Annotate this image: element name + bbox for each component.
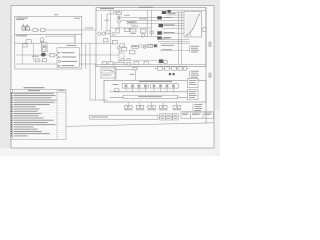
- heater vessel 2: [41, 47, 47, 52]
- parts table row 8: [11, 109, 12, 110]
- parts table header text: [28, 89, 40, 92]
- burner label 4: [164, 16, 173, 19]
- pump dark mark 1: [169, 73, 171, 75]
- heater vessel 1 circle: [43, 43, 46, 46]
- exchanger circle 2: [119, 50, 122, 53]
- blowdown wire 1: [158, 38, 190, 40]
- page sheet: [11, 6, 214, 149]
- comp row circle 2: [129, 29, 132, 32]
- legend row 2 marker: [58, 56, 60, 58]
- lower header label: [138, 95, 162, 98]
- mini cell text: [161, 115, 178, 119]
- parts table row rules: [10, 94, 66, 137]
- parts table row 2: [11, 95, 12, 96]
- M2 right cell lower: [188, 90, 199, 100]
- riser wire g: [181, 11, 183, 64]
- legend row 3 marker: [58, 61, 60, 63]
- heater vessel 1: [42, 42, 48, 46]
- M2 right cell upper: [188, 79, 199, 88]
- pump box 3: [172, 67, 177, 70]
- box A corner note: [74, 17, 80, 20]
- notes text 1: [103, 69, 112, 72]
- consumer group 4 label: [159, 108, 167, 111]
- valve V7 stem: [160, 88, 162, 92]
- valve bowtie: [117, 17, 120, 19]
- bottom row box 2: [108, 62, 113, 65]
- upper bus wire: [110, 27, 152, 29]
- feed box: [106, 31, 110, 34]
- M1 title left: [100, 8, 114, 9]
- deaerator box D1: [117, 12, 122, 15]
- box B pump circle: [40, 38, 44, 42]
- long bottom wire of module: [16, 63, 96, 65]
- pump circle: [183, 67, 187, 71]
- box B small box: [26, 40, 32, 43]
- upper mid box: [104, 39, 109, 42]
- feed circle 2: [102, 32, 105, 35]
- burner block 1: [162, 11, 167, 14]
- consumer group 3 label: [148, 108, 156, 111]
- mini cell grid: [160, 114, 173, 120]
- blowdown label 1: [160, 37, 170, 40]
- M1 small label 4: [131, 25, 138, 28]
- riser wire e: [151, 10, 153, 37]
- consumer group 4 box b: [164, 105, 167, 108]
- deaerator stem wire: [118, 10, 120, 28]
- riser elbow to manifold: [90, 99, 108, 101]
- pump box 4: [178, 67, 183, 70]
- consumer group 3 box a: [148, 105, 151, 108]
- parts table row 11: [11, 115, 12, 116]
- burner block 2: [167, 10, 170, 13]
- bottom row box 5: [144, 62, 149, 65]
- heater box H1: [33, 29, 37, 32]
- valve V8: [166, 85, 169, 87]
- valve V6: [153, 85, 156, 87]
- M1 title center: [139, 7, 153, 8]
- box B pump base: [41, 42, 43, 43]
- blowdown wire 4: [160, 50, 190, 52]
- valve V8 stem: [166, 88, 168, 92]
- parts table row 9: [11, 111, 12, 112]
- consumer group 2 stem: [139, 102, 141, 105]
- M2 right cell upper text: [189, 80, 197, 85]
- line tag stack 3: [195, 104, 203, 111]
- M1 left riser wire: [109, 10, 111, 64]
- blowdown wire 2: [158, 40, 190, 42]
- box B title text: [16, 34, 27, 37]
- manifold box M2: [104, 80, 206, 102]
- valve V6 stem: [153, 88, 155, 92]
- line tag brace 2: [188, 71, 191, 80]
- mid box 1: [112, 40, 117, 44]
- valve V5 stem: [145, 88, 147, 92]
- pump dark mark 2: [173, 73, 175, 75]
- riser wire b: [89, 43, 91, 100]
- consumer group 5 box b: [177, 105, 180, 108]
- legend row 4 text: [62, 65, 75, 66]
- valve V2: [125, 85, 128, 87]
- valve V7: [159, 85, 162, 87]
- steam header sub-box left: [122, 84, 148, 88]
- scan background margin: [0, 0, 220, 156]
- economizer box with curve: [184, 12, 202, 38]
- M2 right cell lower text: [189, 91, 197, 98]
- mid tick box 2: [127, 59, 130, 61]
- comp row box 3 label: [130, 32, 136, 35]
- flow arrow: [56, 54, 58, 56]
- mid labeled box: [132, 45, 139, 48]
- burner block 4: [159, 24, 164, 27]
- parts table row 4: [11, 100, 12, 101]
- mid bus wire: [118, 59, 158, 61]
- drain box 1: [35, 59, 39, 62]
- burner label 1: [164, 23, 175, 26]
- drop wire to manifold: [116, 70, 136, 81]
- burner block 3: [157, 16, 162, 19]
- comp row box 3: [130, 29, 136, 32]
- consumer group 4 box a: [159, 105, 162, 108]
- burner top wire 2: [166, 14, 184, 16]
- note strip box: [90, 115, 159, 119]
- feed circle 1: [98, 32, 101, 35]
- manifold bus wire: [110, 91, 188, 93]
- comp row box 1: [116, 29, 119, 33]
- comp row circle 1: [112, 32, 115, 35]
- parts table column dividers: [10, 89, 66, 139]
- pumps row wire: [155, 68, 188, 70]
- main unit box M1: [96, 8, 206, 67]
- module outer box bottom section: [15, 34, 82, 69]
- burner label 5: [164, 36, 172, 39]
- M2 left label: [113, 83, 119, 86]
- parts table row 12: [11, 117, 12, 118]
- lower header wire: [110, 96, 188, 98]
- M1 small label 1: [113, 11, 120, 14]
- drop wire 2: [114, 66, 116, 80]
- legend row 2 text: [62, 57, 77, 58]
- P2 label: [32, 55, 39, 58]
- steam wire 1: [121, 16, 196, 18]
- drain box 2: [43, 59, 47, 62]
- blowdown wire 3: [160, 42, 190, 44]
- inline box on wire: [127, 21, 136, 24]
- economizer curve: [186, 14, 201, 36]
- note strip text: [91, 116, 108, 119]
- consumer group 3 box b: [152, 105, 155, 108]
- burner wire 0: [163, 25, 196, 27]
- M2 title: [139, 81, 172, 82]
- title row cells: [181, 112, 214, 118]
- drop wire 3 label: [130, 73, 135, 76]
- furnace F2: [26, 25, 30, 31]
- consumer group 5 label: [173, 108, 181, 111]
- gauge circle: [117, 20, 120, 23]
- heater vessel 2 circle: [42, 48, 46, 52]
- manifold inlet box: [115, 89, 120, 92]
- consumer group 2 label: [136, 108, 144, 111]
- burner label 2: [164, 31, 175, 34]
- consumer group 1 box a: [125, 105, 128, 108]
- mid box 3: [148, 44, 153, 47]
- heater box H2: [41, 29, 46, 32]
- comp row box 2: [125, 28, 130, 31]
- burner block 5: [157, 31, 162, 34]
- continuation flag box: [203, 28, 206, 32]
- box A title text: [16, 18, 28, 20]
- parts table row 5: [11, 102, 12, 103]
- valve V2 stem: [125, 88, 127, 92]
- burner top wire 1: [171, 12, 184, 14]
- parts table row 10: [11, 113, 12, 114]
- valve V4 stem: [138, 88, 140, 92]
- mini cell right pair: [173, 114, 179, 120]
- valve V9 stem: [173, 88, 175, 92]
- steam wire 2: [121, 20, 196, 22]
- title row text: [182, 113, 212, 115]
- bottom row box 3: [127, 62, 131, 65]
- consumer group 5 box a: [173, 105, 176, 108]
- zone label right margin 1: [209, 42, 212, 48]
- line tag stack 1: [191, 46, 199, 53]
- mid labeled box text: [132, 45, 137, 48]
- consumer group 2 box b: [141, 105, 144, 108]
- parts table row 13: [11, 120, 12, 121]
- valve V3 stem: [132, 88, 134, 92]
- bottom row wide box: [115, 63, 125, 65]
- bottom row box 6: [164, 60, 168, 63]
- riser wire a: [85, 44, 87, 69]
- drain wire: [35, 60, 47, 62]
- stray note above box A: [54, 13, 59, 16]
- inline box on drop wire: [133, 67, 137, 70]
- parts table row 19: [11, 133, 12, 134]
- riser wire c: [95, 64, 97, 100]
- M1 inner bottom bus: [96, 63, 206, 65]
- mid wire 2: [138, 46, 158, 48]
- legend row 4 marker: [58, 65, 60, 67]
- valve V5: [144, 85, 147, 87]
- parts table row 1: [11, 93, 12, 94]
- burner wire 1: [163, 27, 196, 29]
- burner block 6: [157, 37, 162, 40]
- line tag stack 2: [191, 71, 199, 80]
- parts table row 18: [11, 131, 12, 132]
- notes box divider: [101, 72, 116, 74]
- mid wire 1: [138, 44, 158, 46]
- wire from furnaces to main unit: [29, 29, 96, 31]
- M1 title band rule: [96, 9, 206, 11]
- lower bus wire: [110, 36, 158, 38]
- consumer group 5 stem: [176, 102, 178, 105]
- consumer group 1 box b: [129, 105, 132, 108]
- exchanger box 2: [122, 48, 127, 51]
- consumer group 2 box a: [136, 105, 139, 108]
- mid vertical wire 1: [118, 52, 120, 64]
- economizer curve shading: [186, 14, 201, 36]
- bottom row box 4: [134, 62, 139, 65]
- inline box label: [128, 21, 135, 24]
- pump P2 filled: [41, 53, 46, 57]
- lower header box: [123, 95, 178, 98]
- frame bottom rule: [66, 123, 214, 127]
- wire label: [85, 27, 93, 30]
- mid vertical wire 2: [123, 53, 125, 65]
- blowdown label 3: [162, 48, 172, 51]
- line tag brace 3: [192, 104, 195, 111]
- furnace F1: [22, 25, 29, 31]
- parts table title: [24, 87, 45, 88]
- consumer group 3 stem: [151, 102, 153, 105]
- exchanger box 1: [120, 44, 125, 47]
- wire drop at module right: [75, 36, 118, 43]
- valve V4: [138, 85, 141, 87]
- feed wire horizontal: [107, 13, 117, 15]
- economizer inner wall: [187, 14, 189, 37]
- parts table outline: [10, 89, 66, 139]
- mid tick box 1: [121, 59, 124, 61]
- consumer group 1 label: [124, 108, 132, 111]
- parts table row 14: [11, 122, 12, 123]
- M1 small label 2: [124, 14, 130, 17]
- bottom row dark box: [159, 59, 163, 63]
- feed branch vertical: [100, 14, 102, 30]
- module box A (furnace room): [15, 16, 82, 34]
- M1 small label 5: [105, 19, 110, 22]
- parts table row 20: [11, 135, 12, 136]
- burner label 3: [168, 12, 176, 15]
- mid circle: [143, 46, 146, 49]
- module inner drop wire: [21, 47, 23, 64]
- wire condensate line left: [16, 54, 57, 56]
- valve V9: [172, 85, 175, 87]
- legend row 1 marker: [58, 52, 60, 54]
- line tag brace 1: [188, 46, 191, 53]
- comp row box 4: [150, 31, 153, 34]
- steam wire 3: [127, 23, 196, 25]
- parts table row 15: [11, 124, 12, 125]
- wire box B bottom to main: [45, 35, 75, 37]
- riser wire d: [146, 10, 148, 37]
- bottom row box 1: [103, 61, 107, 64]
- consumer group 4 stem: [162, 102, 164, 105]
- module box B: [15, 34, 75, 43]
- feed wire vertical: [106, 14, 108, 30]
- wire condensate line right: [79, 54, 119, 56]
- exchanger circle 1: [117, 46, 120, 49]
- notes text 2: [103, 74, 112, 77]
- parts table row 7: [11, 106, 12, 107]
- blowdown label 2: [161, 44, 174, 47]
- module inner drop wire 2: [33, 43, 35, 61]
- drum circle: [141, 34, 145, 38]
- legend row 3 text: [62, 61, 78, 62]
- valve V3: [131, 85, 134, 87]
- riser wire f: [178, 11, 180, 64]
- drop wire 2 label: [111, 70, 114, 73]
- inner border right: [205, 8, 207, 124]
- steam header sub-box right: [150, 84, 178, 88]
- legend title: [67, 44, 77, 47]
- valve box V1: [50, 53, 55, 57]
- parts table row 16: [11, 126, 12, 127]
- mid dark box: [154, 44, 157, 47]
- zone label right margin 2: [209, 73, 212, 79]
- legend row 1 text: [62, 52, 75, 53]
- mid box 2: [129, 51, 135, 54]
- drum box: [141, 29, 147, 33]
- M1 small label 3: [139, 17, 147, 20]
- notes box below M1: [101, 68, 116, 78]
- pump box 2: [165, 67, 170, 70]
- burner wire 2: [162, 32, 184, 34]
- legend box: [57, 48, 79, 67]
- parts table row 6: [11, 104, 12, 105]
- parts table row 3: [11, 97, 12, 98]
- pump box 1: [158, 67, 163, 70]
- feed tank box T1: [23, 44, 27, 47]
- consumer group 1 stem: [127, 102, 129, 105]
- parts table row 17: [11, 129, 12, 130]
- economizer inner wall 2: [190, 20, 192, 37]
